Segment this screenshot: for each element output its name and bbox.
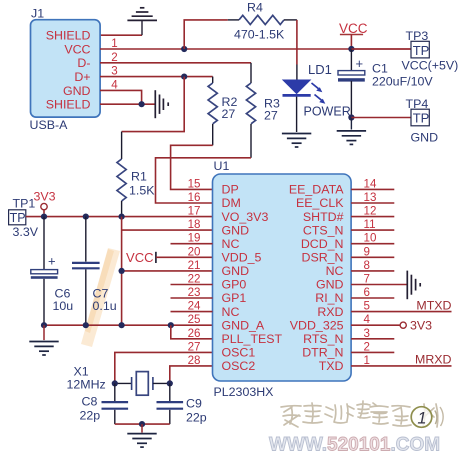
svg-text:220uF/10V: 220uF/10V xyxy=(372,75,433,89)
svg-text:RTS_N: RTS_N xyxy=(303,332,343,346)
IC U1 PL2303HX xyxy=(213,159,352,399)
svg-text:VDD_325: VDD_325 xyxy=(290,318,344,332)
svg-text:3: 3 xyxy=(364,327,370,340)
svg-text:17: 17 xyxy=(188,205,201,218)
svg-text:D-: D- xyxy=(77,56,90,70)
svg-text:J1: J1 xyxy=(31,7,44,21)
svg-text:DM: DM xyxy=(222,196,241,210)
svg-text:VCC: VCC xyxy=(339,21,368,36)
svg-text:15: 15 xyxy=(188,177,201,190)
testpoint TP3 xyxy=(351,29,458,73)
svg-text:9: 9 xyxy=(364,245,370,258)
ground (USB shield, sideways) xyxy=(155,90,168,118)
svg-text:X1: X1 xyxy=(74,365,89,379)
svg-text:2: 2 xyxy=(111,51,117,64)
svg-text:VO_3V3: VO_3V3 xyxy=(222,210,269,224)
svg-text:3V3: 3V3 xyxy=(410,319,432,333)
wire crystal gnd xyxy=(115,423,170,425)
svg-text:OSC2: OSC2 xyxy=(222,359,256,373)
resistor R3 xyxy=(246,63,280,158)
wire pin7 to gnd xyxy=(351,284,407,286)
svg-text:TP: TP xyxy=(10,211,26,225)
svg-text:GND: GND xyxy=(316,278,344,292)
svg-text:VCC: VCC xyxy=(126,250,153,265)
svg-text:13: 13 xyxy=(364,191,377,204)
connector J1 (USB-A) xyxy=(30,7,101,133)
svg-text:U1: U1 xyxy=(214,159,230,173)
svg-text:EE_DATA: EE_DATA xyxy=(289,183,344,197)
svg-text:28: 28 xyxy=(188,354,201,367)
svg-text:TP4: TP4 xyxy=(406,97,429,111)
capacitor C6 xyxy=(31,217,73,326)
svg-text:SHTD#: SHTD# xyxy=(303,210,344,224)
wire D- line xyxy=(100,62,251,64)
svg-text:VDD_5: VDD_5 xyxy=(222,251,262,265)
svg-text:2: 2 xyxy=(364,340,370,353)
left pin names xyxy=(222,183,283,374)
node rail-TP1 xyxy=(41,214,47,220)
svg-text:OSC1: OSC1 xyxy=(222,346,256,360)
capacitor C7 xyxy=(72,217,117,326)
svg-text:GND: GND xyxy=(63,84,91,98)
node pin21-gnd xyxy=(119,268,125,274)
svg-text:10u: 10u xyxy=(53,299,74,313)
svg-text:26: 26 xyxy=(188,327,201,340)
svg-text:POWER: POWER xyxy=(304,105,351,119)
svg-text:PL2303HX: PL2303HX xyxy=(214,385,274,399)
svg-text:7: 7 xyxy=(364,273,370,286)
svg-text:D+: D+ xyxy=(74,70,90,84)
svg-text:EE_CLK: EE_CLK xyxy=(296,196,344,210)
node gndrail-pin26 xyxy=(168,322,174,328)
svg-text:WWW.520101.COM: WWW.520101.COM xyxy=(269,435,440,453)
testpoint TP1 xyxy=(9,197,44,240)
svg-text:NC: NC xyxy=(222,305,240,319)
wire: USB shield-top to earth ground xyxy=(100,34,142,36)
svg-text:TP: TP xyxy=(413,111,430,126)
svg-text:CTS_N: CTS_N xyxy=(303,223,344,237)
svg-text:TP1: TP1 xyxy=(13,197,36,211)
svg-text:27: 27 xyxy=(264,109,278,123)
svg-text:USB-A: USB-A xyxy=(30,118,69,132)
svg-text:1: 1 xyxy=(364,354,370,367)
node 3V3 xyxy=(34,190,56,214)
right pin names xyxy=(289,183,344,374)
power VCC tick pin20 xyxy=(126,250,212,265)
svg-text:NC: NC xyxy=(222,237,240,251)
watermark chinese xyxy=(281,401,438,427)
svg-text:GP0: GP0 xyxy=(222,278,247,292)
node VCC-C1 xyxy=(348,46,354,52)
svg-text:SHIELD: SHIELD xyxy=(46,29,91,43)
svg-text:LD1: LD1 xyxy=(308,62,332,77)
wire pin27 to crystal xyxy=(115,352,213,383)
svg-text:R4: R4 xyxy=(247,1,263,15)
wire 3V3 rail xyxy=(44,216,213,218)
svg-text:TP: TP xyxy=(413,43,430,58)
node OSC2 xyxy=(167,380,173,386)
svg-text:470-1.5K: 470-1.5K xyxy=(234,28,285,42)
svg-text:C8: C8 xyxy=(82,395,98,409)
svg-text:GP1: GP1 xyxy=(222,291,247,305)
right stub wires xyxy=(351,189,394,352)
svg-text:0.1u: 0.1u xyxy=(93,299,117,313)
wire D+ to R1 xyxy=(122,77,185,132)
svg-text:25: 25 xyxy=(188,313,201,326)
svg-text:27: 27 xyxy=(188,340,201,353)
ground (crystal) xyxy=(127,424,156,447)
svg-text:1: 1 xyxy=(417,410,426,428)
wire pin5 MTXD xyxy=(351,311,451,313)
svg-text:SHIELD: SHIELD xyxy=(46,98,91,112)
svg-text:MTXD: MTXD xyxy=(416,298,451,312)
svg-text:3.3V: 3.3V xyxy=(13,225,39,239)
power VCC symbol xyxy=(339,21,368,49)
svg-text:12MHz: 12MHz xyxy=(67,378,106,392)
svg-text:MRXD: MRXD xyxy=(415,353,452,367)
node C1 bottom xyxy=(348,114,354,120)
node VCC-R4 junction xyxy=(181,46,187,52)
wire R2 to pin15 xyxy=(171,145,213,189)
ground (C1) xyxy=(337,118,366,145)
svg-text:PLL_TEST: PLL_TEST xyxy=(222,332,283,346)
node shield junction xyxy=(139,101,145,107)
node OSC1 xyxy=(112,380,118,386)
watermark logo circled 1 xyxy=(411,407,443,428)
svg-text:VCC: VCC xyxy=(64,42,90,56)
wire GND vertical xyxy=(121,217,123,326)
svg-text:DP: DP xyxy=(222,183,239,197)
wire pin1 MRXD xyxy=(351,365,451,367)
resistor R4 xyxy=(228,1,297,42)
ground (C6 rail) xyxy=(29,325,58,355)
svg-text:RXD: RXD xyxy=(317,305,343,319)
watermark orange stroke xyxy=(81,248,120,347)
svg-text:6: 6 xyxy=(364,286,370,299)
svg-text:18: 18 xyxy=(188,218,201,231)
svg-text:GND: GND xyxy=(411,131,439,145)
svg-text:VCC(+5V): VCC(+5V) xyxy=(402,59,459,73)
svg-text:22p: 22p xyxy=(80,409,101,423)
svg-text:24: 24 xyxy=(188,300,201,313)
capacitor C1 xyxy=(338,49,433,118)
svg-text:TXD: TXD xyxy=(319,359,344,373)
svg-text:19: 19 xyxy=(188,232,201,245)
ground (LED) xyxy=(282,134,311,148)
node gndrail-C6 xyxy=(41,322,47,328)
node 3V3 (pin4) xyxy=(400,322,406,328)
ground (top earth, inverted) xyxy=(127,8,157,35)
ground (pin7, sideways) xyxy=(407,271,420,300)
svg-text:20: 20 xyxy=(188,245,201,258)
svg-text:C9: C9 xyxy=(186,397,202,411)
wire pin18 xyxy=(122,229,213,231)
svg-text:GND_A: GND_A xyxy=(222,318,265,332)
resistor R1 xyxy=(117,132,155,217)
svg-text:3V3: 3V3 xyxy=(34,190,56,204)
svg-text:RI_N: RI_N xyxy=(315,291,343,305)
svg-text:DCD_N: DCD_N xyxy=(301,237,344,251)
svg-text:C1: C1 xyxy=(372,62,388,76)
node gndrail-vert xyxy=(119,322,125,328)
svg-text:8: 8 xyxy=(364,259,370,272)
wire D+ line xyxy=(100,76,213,78)
svg-text:4: 4 xyxy=(364,313,371,326)
svg-text:23: 23 xyxy=(188,286,201,299)
capacitor C9 xyxy=(157,383,207,424)
wire VCC line xyxy=(100,48,411,50)
wire R4 branch xyxy=(184,20,228,49)
right pin numbers xyxy=(364,177,377,367)
svg-text:11: 11 xyxy=(364,218,376,231)
svg-text:22: 22 xyxy=(188,273,201,286)
svg-text:NC: NC xyxy=(326,264,344,278)
wire pin28 to crystal xyxy=(170,366,213,384)
wire pin21 xyxy=(122,270,213,272)
svg-text:3: 3 xyxy=(111,65,117,78)
crystal X1 xyxy=(67,365,170,396)
svg-text:GND: GND xyxy=(222,264,250,278)
node xtal-gnd xyxy=(139,421,145,427)
wire pin4 3V3 xyxy=(351,324,400,326)
LED LD1 xyxy=(283,62,351,119)
testpoint TP4 xyxy=(351,97,438,145)
svg-text:27: 27 xyxy=(222,107,236,121)
left pin numbers xyxy=(188,177,201,367)
svg-text:16: 16 xyxy=(188,191,201,204)
svg-text:1: 1 xyxy=(111,37,117,50)
node gndrail-C7 xyxy=(83,322,89,328)
svg-text:R1: R1 xyxy=(131,170,147,184)
node rail-R1 xyxy=(119,214,125,220)
wire R3 to pin16 xyxy=(156,158,252,203)
svg-text:+: + xyxy=(48,254,56,269)
node rail-C7 xyxy=(83,214,89,220)
wire GND to shield gnd xyxy=(100,90,155,104)
svg-text:4: 4 xyxy=(111,78,118,91)
wire pin26 xyxy=(171,325,213,339)
svg-text:10: 10 xyxy=(364,232,377,245)
svg-text:DTR_N: DTR_N xyxy=(302,346,343,360)
wire R4 to LED xyxy=(296,20,298,65)
wire GND bottom rail xyxy=(44,324,213,326)
svg-text:+: + xyxy=(356,56,364,71)
svg-text:14: 14 xyxy=(364,177,377,190)
svg-text:GND: GND xyxy=(222,223,250,237)
svg-text:5: 5 xyxy=(364,300,370,313)
left stub wires NC/GP0/GP1/NC xyxy=(171,244,213,312)
svg-text:TP3: TP3 xyxy=(406,29,429,43)
svg-text:12: 12 xyxy=(364,205,377,218)
capacitor C8 xyxy=(80,383,129,424)
resistor R2 xyxy=(208,77,237,146)
svg-text:21: 21 xyxy=(188,259,201,272)
svg-text:DSR_N: DSR_N xyxy=(302,251,344,265)
svg-text:22p: 22p xyxy=(186,411,207,425)
svg-text:1.5K: 1.5K xyxy=(129,184,155,198)
node D+ junction xyxy=(181,74,187,80)
